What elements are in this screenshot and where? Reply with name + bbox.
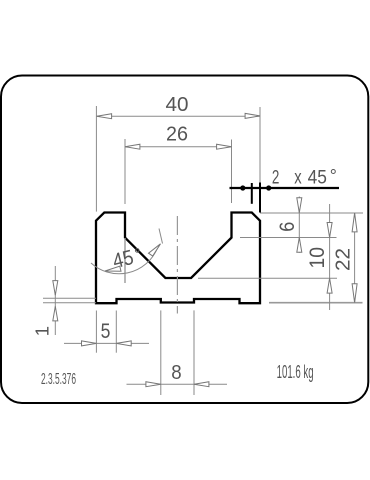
dim 26: extension lines — [124, 139, 126, 204]
extension line: part bottom level (22) — [269, 302, 363, 304]
dim 6: arrow bottom — [297, 237, 302, 252]
svg-text:5: 5 — [101, 320, 111, 343]
dim 5: arrow right — [116, 341, 131, 346]
extension line: groove bottom level (10) — [198, 277, 337, 279]
svg-text:6: 6 — [276, 222, 299, 232]
chamfer note: dot left — [240, 185, 245, 190]
dim 40: extension lines — [95, 106, 97, 212]
svg-text:2: 2 — [272, 167, 280, 189]
chamfer note: dot right — [266, 185, 271, 190]
centerline — [176, 216, 178, 314]
dim 10: dimension line — [329, 204, 331, 310]
extension line: part top level — [260, 212, 363, 214]
dim 26: arrow right — [217, 144, 232, 149]
dim 1: extension lines — [43, 297, 96, 299]
chamfer note: tick 2 — [259, 183, 261, 213]
chamfer note 2x45: leader line — [230, 187, 340, 189]
svg-text:40: 40 — [166, 94, 189, 116]
svg-text:2.3.5.376: 2.3.5.376 — [41, 371, 76, 388]
dim 22: arrow bottom — [352, 284, 357, 303]
dim 40: arrow left — [97, 114, 112, 119]
angle 45: vertical reference extension — [124, 238, 126, 283]
svg-text:101.6 kg: 101.6 kg — [277, 362, 314, 382]
svg-text:22: 22 — [332, 248, 354, 271]
dim 26: dimension line — [125, 146, 232, 148]
dim 1: dimension line — [54, 266, 56, 335]
dim 5: dimension line — [64, 342, 149, 344]
svg-text:10: 10 — [306, 247, 329, 269]
dim 22: dimension line — [354, 213, 356, 303]
chamfer note: tick 1 — [251, 183, 253, 204]
dim 1: arrow top — [53, 281, 58, 296]
svg-text:45: 45 — [308, 167, 327, 189]
dim 40: dimension line — [97, 115, 260, 117]
dim 8: dimension line — [127, 383, 228, 385]
dim 26: arrow left — [125, 144, 140, 149]
angle 45: arc — [91, 249, 157, 274]
svg-text:x: x — [294, 167, 302, 189]
dim 8: arrow left — [146, 382, 161, 387]
angle 45: arrow right — [149, 244, 161, 256]
border frame — [1, 76, 368, 404]
extension line: groove shoulder level (6) — [240, 237, 337, 239]
angle 45: short tick on groove wall — [159, 229, 163, 244]
dim 1: arrow bottom — [53, 306, 58, 321]
dim 40: arrow right — [245, 113, 260, 118]
svg-text:1: 1 — [32, 326, 53, 336]
svg-text:26: 26 — [166, 122, 188, 145]
dim 8: arrow right — [194, 382, 209, 387]
dim 8: extension lines — [160, 310, 162, 395]
part outline (V-block profile) — [96, 213, 260, 304]
dim 5: extension lines — [95, 311, 97, 353]
dim 6: dimension line — [298, 197, 300, 253]
dim 5: arrow left — [82, 341, 97, 346]
svg-text:8: 8 — [171, 361, 181, 384]
dim 6: arrow top — [297, 198, 302, 213]
angle 45: arrow left — [105, 266, 121, 271]
dim 22: arrow top — [352, 213, 357, 232]
dim 10: arrow top — [327, 223, 332, 238]
dim 10: arrow bottom — [327, 278, 332, 293]
